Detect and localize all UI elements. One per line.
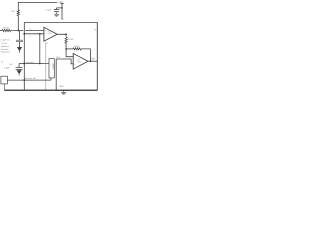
svg-text:Out: Out	[91, 57, 95, 60]
svg-text:+5V: +5V	[58, 1, 63, 4]
svg-text:1µF: 1µF	[9, 64, 13, 66]
svg-text:Capacitor: Capacitor	[1, 51, 11, 54]
svg-text:−: −	[74, 56, 76, 59]
svg-text:−: −	[45, 33, 47, 36]
svg-text:0.1µF: 0.1µF	[46, 10, 52, 12]
svg-text:28 kΩ: 28 kΩ	[3, 27, 9, 29]
svg-text:4.7: 4.7	[1, 61, 5, 63]
svg-text:20 kΩ: 20 kΩ	[68, 39, 74, 41]
svg-text:4: 4	[47, 43, 49, 45]
svg-text:Speaker: Speaker	[1, 48, 9, 51]
svg-text:0.1µF: 0.1µF	[1, 43, 7, 45]
svg-text:0.1µF ±5: 0.1µF ±5	[1, 40, 10, 42]
svg-text:7: 7	[63, 18, 65, 20]
svg-text:Optional: Optional	[1, 45, 10, 48]
svg-text:Electret Mic: Electret Mic	[25, 77, 37, 80]
svg-text:1.8µF: 1.8µF	[4, 67, 10, 69]
svg-text:+: +	[74, 64, 76, 67]
svg-text:1793: 1793	[47, 33, 51, 35]
svg-text:2: 2	[30, 36, 32, 38]
svg-text:10 kΩ: 10 kΩ	[74, 46, 80, 48]
svg-text:+: +	[44, 29, 46, 32]
svg-text:GND: GND	[59, 86, 64, 88]
svg-text:Out: Out	[94, 28, 98, 31]
svg-text:1M: 1M	[11, 11, 14, 13]
svg-text:1793: 1793	[77, 62, 81, 64]
svg-text:2N5457: 2N5457	[51, 63, 53, 70]
svg-text:Speaker: Speaker	[26, 61, 34, 64]
